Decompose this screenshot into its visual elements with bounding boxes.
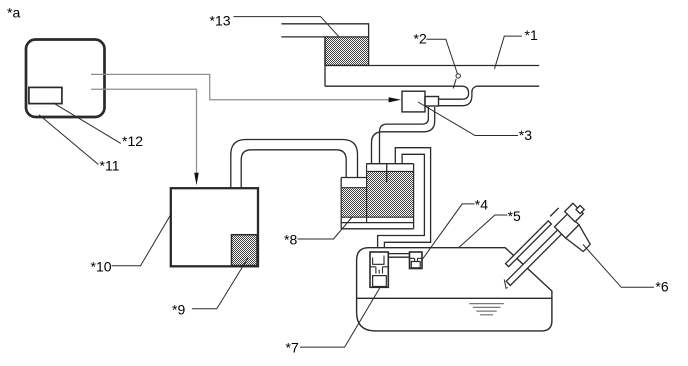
pump module box *10 <box>171 188 258 266</box>
svg-text:*4: *4 <box>475 197 488 213</box>
fuel level marks <box>469 304 504 315</box>
canister dip tube line <box>386 164 388 182</box>
gray signal wire to pump module *10 <box>91 89 197 173</box>
leader *3 <box>418 102 518 136</box>
leader *5 <box>459 215 507 247</box>
leader *4 <box>422 204 475 261</box>
svg-text:*8: *8 <box>284 232 297 248</box>
svg-text:*5: *5 <box>508 208 521 224</box>
filler inner tube <box>506 221 552 267</box>
connector pipe *7 to *4 <box>388 254 409 258</box>
air cleaner element *13 (hatched) <box>325 37 369 66</box>
svg-text:*6: *6 <box>655 278 668 294</box>
leader *10 <box>112 215 171 266</box>
valve *4 internal seat <box>410 258 423 261</box>
ECM box *11 (rounded rect) <box>26 40 105 118</box>
leader *6 <box>583 245 654 288</box>
intake pipe *1 bottom line left + purge port U-turn <box>325 86 469 99</box>
valve *4 internal float <box>411 262 420 268</box>
pump filter *9 (hatched) <box>232 235 258 266</box>
filler outlet arrow mark <box>504 279 508 288</box>
purge VSV *3 outlet fitting <box>425 97 439 107</box>
svg-text:*3: *3 <box>519 127 532 143</box>
leader *1 <box>495 36 522 69</box>
leader *9 <box>192 258 248 308</box>
leader *7 <box>300 287 381 348</box>
valve *7 internal top cup <box>373 256 384 265</box>
leader *2 tail segment <box>453 79 456 89</box>
tank cutoff valve *7 box <box>370 252 388 287</box>
svg-text:*10: *10 <box>91 259 112 275</box>
fuel level line <box>357 297 552 299</box>
leader *8 <box>298 217 353 240</box>
leader *2 end circle <box>456 74 460 78</box>
filler tick line <box>550 208 558 216</box>
filler collar lower piece <box>566 225 595 254</box>
gray signal wire to VSV *3 <box>91 74 389 99</box>
vent pipe canister to tank valve (wall A outer) <box>384 148 430 248</box>
fresh-air pipe pump *10 to canister (outer wall) <box>231 140 358 189</box>
svg-text:*13: *13 <box>210 13 231 29</box>
canister body *8 outline <box>341 164 413 229</box>
filler cap <box>565 203 584 222</box>
canister charcoal right (hatched) <box>366 172 413 217</box>
intake pipe *1 top line <box>325 37 539 86</box>
valve *7 internal bottom float <box>373 276 387 287</box>
filler flange <box>555 214 580 239</box>
svg-text:*a: *a <box>7 5 20 21</box>
leader *11 <box>39 115 98 165</box>
svg-text:*1: *1 <box>525 27 538 43</box>
intake pipe *1 bottom line right + port outer curve <box>439 86 540 106</box>
purge hose VSV *3 to canister (inner wall) <box>380 107 429 164</box>
svg-text:*9: *9 <box>172 302 185 318</box>
leader *12 <box>53 103 121 144</box>
filler cap top knob <box>576 205 584 213</box>
svg-text:*11: *11 <box>100 158 120 174</box>
valve *7 internal seat line <box>370 267 388 274</box>
vent pipe canister to tank valve (wall B inner) <box>378 154 425 247</box>
arrowhead into pump module *10 <box>194 173 199 185</box>
air inlet duct lines <box>281 24 368 37</box>
leader *2 <box>426 39 457 73</box>
fuel tank *5 outline <box>357 248 552 331</box>
svg-text:*7: *7 <box>286 340 299 356</box>
fuel filler assembly *6 <box>496 196 605 305</box>
fresh-air pipe pump *10 to canister (inner wall) <box>241 150 346 188</box>
purge VSV *3 body <box>402 91 425 112</box>
canister charcoal left (hatched) <box>342 188 366 217</box>
purge hose VSV *3 to canister (outer wall) <box>372 107 435 164</box>
leader *13 <box>233 17 339 38</box>
ECM inner block *12 <box>29 87 62 103</box>
canister hatch borders and divider <box>342 164 413 223</box>
filler outer tube <box>506 230 562 286</box>
svg-text:*2: *2 <box>414 31 427 47</box>
arrowhead into VSV *3 <box>389 97 401 102</box>
svg-text:*12: *12 <box>122 133 143 149</box>
check valve *4 box <box>410 252 423 269</box>
